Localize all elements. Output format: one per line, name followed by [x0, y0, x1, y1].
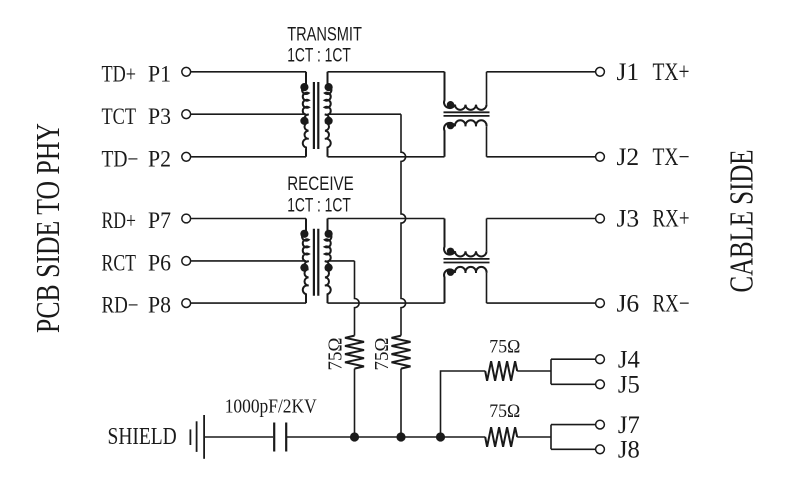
terminal J4 — [596, 355, 605, 364]
svg-text:P2: P2 — [148, 146, 171, 171]
terminal J2 — [596, 152, 605, 161]
wire resistor B to shield bus — [400, 369, 402, 437]
terminal J7 — [596, 420, 605, 429]
choke L1 (transmit) polarity dot bottom — [447, 122, 454, 129]
terminal P8 — [182, 299, 191, 308]
transformer T2 polarity dot primary top — [300, 230, 308, 238]
transformer T1 primary winding (TD+/TCT/TD-) — [302, 72, 309, 157]
svg-text:J8: J8 — [618, 437, 640, 464]
junction node C (branch to 75R C) — [436, 432, 445, 441]
svg-text:SHIELD: SHIELD — [108, 424, 177, 450]
wire P2 to transformer — [191, 156, 306, 158]
resistor 75R horizontal D — [485, 427, 517, 447]
wire T1 secondary tap to node — [328, 113, 402, 115]
svg-text:1000pF/2KV: 1000pF/2KV — [225, 395, 317, 417]
choke L1 (transmit) polarity dot top — [447, 101, 454, 108]
wire node C up to resistor C — [441, 371, 486, 437]
wire T1 secondary bottom to choke L1 — [328, 156, 445, 158]
choke L2 (receive) top winding — [444, 219, 486, 257]
svg-text:J2: J2 — [617, 144, 640, 171]
wire resistor A to shield bus — [354, 369, 356, 437]
svg-text:1CT : 1CT: 1CT : 1CT — [287, 195, 351, 216]
svg-text:RX−: RX− — [653, 290, 690, 317]
wire choke L2 to J3 — [487, 218, 596, 220]
choke L2 (receive) polarity dot bottom — [447, 269, 454, 276]
wire resistor C to J4/J5 split — [517, 359, 595, 384]
svg-text:P3: P3 — [148, 104, 171, 129]
junction node A (resistor A to bus) — [350, 432, 359, 441]
junction node B (resistor B to bus) — [396, 432, 405, 441]
wire choke L2 to J6 — [487, 302, 596, 304]
svg-text:J5: J5 — [618, 372, 640, 399]
wire T2 secondary bottom to choke L2 — [328, 302, 445, 304]
choke L2 (receive) bottom winding — [444, 267, 487, 303]
svg-text:RECEIVE: RECEIVE — [287, 174, 354, 195]
shield terminal bar short — [189, 429, 191, 445]
transformer T1 polarity dot secondary top — [325, 83, 333, 91]
wire resistor D to J7/J8 split — [517, 425, 595, 450]
terminal P6 — [182, 257, 191, 266]
transformer T2 polarity dot secondary lower — [325, 264, 333, 272]
choke L2 (receive) polarity dot top — [447, 248, 454, 255]
shield terminal bar tall — [203, 415, 205, 459]
capacitor C1 plate right — [285, 423, 287, 452]
transformer T2 core line 2 — [317, 229, 319, 296]
resistor 75R vertical B (transmit termination) — [392, 336, 411, 369]
wire P3 to transformer — [191, 113, 306, 115]
transformer T2 polarity dot secondary top — [325, 230, 333, 238]
choke L1 (transmit) bottom winding right lead — [486, 126, 488, 157]
svg-text:1CT : 1CT: 1CT : 1CT — [287, 46, 351, 67]
wire P6 to transformer — [191, 260, 306, 262]
transformer T1 secondary winding — [325, 72, 332, 157]
svg-text:TCT: TCT — [102, 104, 137, 129]
choke L1 (transmit) core line 2 — [444, 115, 490, 117]
transformer T1 core line 1 — [313, 82, 315, 149]
terminal J8 — [596, 445, 605, 454]
svg-text:P6: P6 — [148, 251, 171, 276]
wire shield to capacitor — [204, 436, 273, 438]
resistor 75R horizontal C — [485, 361, 517, 381]
transformer T2 polarity dot primary lower — [300, 264, 308, 272]
transformer T1 polarity dot secondary lower — [325, 117, 333, 125]
capacitor C1 plate left — [273, 423, 275, 452]
svg-text:75Ω: 75Ω — [325, 338, 347, 371]
svg-text:TD−: TD− — [102, 146, 139, 171]
choke L2 (receive) core line 2 — [444, 262, 490, 264]
svg-text:J4: J4 — [618, 347, 640, 374]
choke L1 (transmit) bottom winding — [444, 120, 487, 157]
wire choke L1 to J1 — [487, 71, 596, 73]
wire P1 to transformer — [191, 71, 306, 73]
svg-text:P8: P8 — [148, 293, 171, 318]
svg-text:J6: J6 — [617, 290, 640, 317]
choke L1 (transmit) top winding right lead — [486, 72, 488, 105]
terminal J3 — [596, 214, 605, 223]
choke L2 (receive) top winding right lead — [486, 219, 488, 252]
svg-text:P7: P7 — [148, 208, 171, 233]
wire T2 secondary tap to node — [328, 260, 355, 262]
svg-text:J3: J3 — [617, 206, 640, 233]
choke L2 (receive) core line 1 — [444, 258, 490, 260]
svg-text:TX+: TX+ — [653, 59, 690, 86]
svg-text:J1: J1 — [617, 59, 640, 86]
terminal P1 — [182, 67, 191, 76]
svg-text:RD−: RD− — [102, 293, 139, 318]
svg-text:P1: P1 — [148, 61, 171, 86]
resistor 75R vertical A (receive termination) — [345, 336, 364, 369]
transformer T1 core line 2 — [317, 82, 319, 149]
svg-text:CABLE SIDE: CABLE SIDE — [724, 150, 761, 293]
svg-text:RCT: RCT — [102, 251, 137, 276]
transformer T1 polarity dot primary lower — [300, 117, 308, 125]
wire P7 to transformer — [191, 218, 306, 220]
terminal J5 — [596, 380, 605, 389]
terminal J6 — [596, 299, 605, 308]
terminal J1 — [596, 67, 605, 76]
wire T2 secondary top to choke L2 — [328, 218, 445, 220]
transformer T1 polarity dot primary top — [300, 83, 308, 91]
terminal P7 — [182, 214, 191, 223]
wire choke L1 to J2 — [487, 156, 596, 158]
svg-text:75Ω: 75Ω — [371, 338, 393, 371]
svg-text:75Ω: 75Ω — [489, 337, 520, 358]
svg-text:TX−: TX− — [653, 144, 690, 171]
transformer T2 core line 1 — [313, 229, 315, 296]
svg-text:PCB SIDE TO PHY: PCB SIDE TO PHY — [30, 123, 67, 333]
svg-text:RX+: RX+ — [653, 206, 690, 233]
terminal P3 — [182, 110, 191, 119]
wire P8 to transformer — [191, 302, 306, 304]
svg-text:75Ω: 75Ω — [489, 401, 520, 422]
terminal P2 — [182, 152, 191, 161]
transformer T2 secondary winding — [325, 219, 332, 304]
svg-text:TD+: TD+ — [102, 61, 137, 86]
choke L1 (transmit) top winding — [444, 72, 486, 110]
svg-text:J7: J7 — [618, 412, 640, 439]
wire shield bus — [286, 436, 485, 438]
wire T1 secondary top to choke L1 — [328, 71, 445, 73]
svg-text:RD+: RD+ — [102, 208, 137, 233]
shield terminal bar medium — [196, 421, 198, 452]
svg-text:TRANSMIT: TRANSMIT — [287, 24, 362, 45]
choke L1 (transmit) core line 1 — [444, 111, 490, 113]
transformer T2 primary winding (RD+/RCT/RD-) — [302, 219, 309, 304]
wire node T1-tap down to resistor (hops over 3 wires) — [401, 114, 406, 335]
wire node T2-tap down to resistor (hop over 1 wire) — [355, 261, 360, 336]
choke L2 (receive) bottom winding right lead — [486, 273, 488, 303]
